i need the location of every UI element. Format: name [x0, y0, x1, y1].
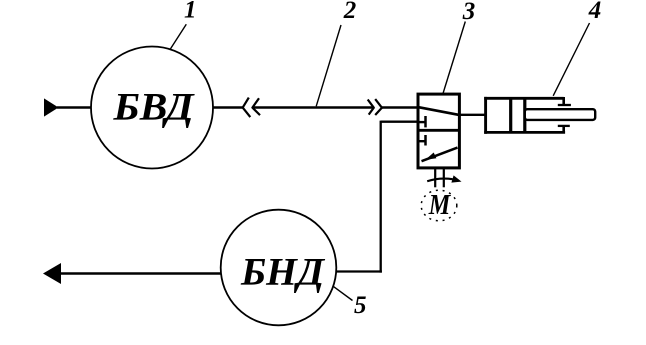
svg-text:3: 3 — [462, 0, 476, 25]
svg-text:1: 1 — [184, 0, 197, 24]
svg-text:БНД: БНД — [240, 249, 326, 293]
svg-text:5: 5 — [354, 292, 367, 319]
svg-text:2: 2 — [343, 0, 357, 24]
svg-text:БВД: БВД — [112, 84, 195, 128]
svg-text:M: M — [428, 190, 451, 221]
svg-text:4: 4 — [588, 0, 602, 24]
